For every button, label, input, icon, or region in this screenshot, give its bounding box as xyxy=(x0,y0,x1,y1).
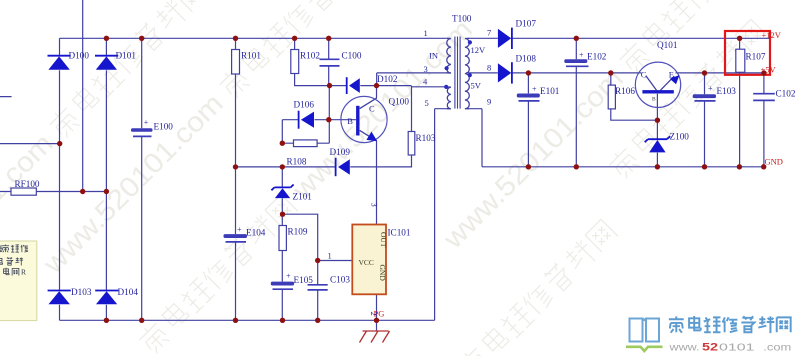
svg-text:T100: T100 xyxy=(452,14,472,24)
svg-text:E103: E103 xyxy=(717,86,737,96)
svg-text:GND: GND xyxy=(765,157,783,167)
svg-text:R107: R107 xyxy=(746,52,766,62)
svg-text:D101: D101 xyxy=(116,51,137,61)
svg-text:C100: C100 xyxy=(342,51,362,61)
svg-text:7: 7 xyxy=(487,28,491,38)
svg-text:R: R xyxy=(21,268,26,277)
svg-text:0101: 0101 xyxy=(719,342,755,354)
svg-text:C103: C103 xyxy=(330,275,350,285)
svg-text:E101: E101 xyxy=(540,86,560,96)
svg-text:Z101: Z101 xyxy=(293,192,313,202)
svg-text:R106: R106 xyxy=(615,86,635,96)
svg-text:IN: IN xyxy=(429,51,438,61)
svg-text:3: 3 xyxy=(370,203,380,207)
svg-text:52: 52 xyxy=(702,342,718,354)
svg-text:IC101: IC101 xyxy=(388,228,411,238)
svg-text:Z100: Z100 xyxy=(670,132,690,142)
svg-text:+: + xyxy=(237,225,242,234)
svg-text:9: 9 xyxy=(487,97,491,107)
svg-text:Q101: Q101 xyxy=(657,40,678,50)
svg-text:GND: GND xyxy=(378,265,387,282)
svg-text:1: 1 xyxy=(328,251,332,261)
svg-text:+: + xyxy=(579,51,584,60)
svg-text:R109: R109 xyxy=(288,227,308,237)
svg-text:E102: E102 xyxy=(587,52,607,62)
svg-text:RF100: RF100 xyxy=(15,179,40,189)
svg-text:+5V: +5V xyxy=(761,65,777,75)
svg-text:2: 2 xyxy=(369,312,379,316)
svg-text:+: + xyxy=(286,272,291,281)
svg-text:1: 1 xyxy=(424,28,428,38)
svg-text:8: 8 xyxy=(487,63,491,73)
svg-text:D100: D100 xyxy=(69,51,90,61)
svg-text:C: C xyxy=(641,70,647,80)
svg-text:R108: R108 xyxy=(287,157,307,167)
svg-text:D108: D108 xyxy=(516,54,537,64)
svg-text:www.520101.com: www.520101.com xyxy=(37,88,229,280)
svg-text:R103: R103 xyxy=(416,133,436,143)
svg-text:D104: D104 xyxy=(118,287,139,297)
svg-text:E105: E105 xyxy=(294,275,314,285)
svg-text:B: B xyxy=(652,97,656,103)
svg-text:C: C xyxy=(369,104,375,114)
svg-text:12V: 12V xyxy=(471,45,487,55)
svg-text:D109: D109 xyxy=(330,147,351,157)
svg-text:VCC: VCC xyxy=(359,258,374,267)
svg-text:E: E xyxy=(669,70,674,80)
svg-text:R101: R101 xyxy=(241,51,261,61)
svg-text:D103: D103 xyxy=(71,287,92,297)
svg-text:5V: 5V xyxy=(471,81,482,91)
svg-text:5: 5 xyxy=(425,98,429,108)
svg-text:C102: C102 xyxy=(776,89,796,99)
svg-text:D106: D106 xyxy=(294,100,315,110)
svg-text:3: 3 xyxy=(424,64,428,74)
svg-text:D107: D107 xyxy=(516,19,537,29)
svg-text:+: + xyxy=(532,85,537,94)
svg-text:Q100: Q100 xyxy=(389,97,410,107)
svg-text:+: + xyxy=(144,118,149,127)
svg-text:+12V: +12V xyxy=(762,30,782,40)
svg-text:+: + xyxy=(708,84,713,93)
svg-text:R102: R102 xyxy=(300,51,320,61)
svg-text:D102: D102 xyxy=(377,74,398,84)
svg-text:E100: E100 xyxy=(154,122,174,132)
svg-text:.com: .com xyxy=(763,342,791,354)
svg-text:www.520101.com: www.520101.com xyxy=(286,13,478,205)
svg-text:E104: E104 xyxy=(246,228,266,238)
svg-text:B: B xyxy=(347,116,353,126)
svg-text:www.: www. xyxy=(668,342,699,354)
